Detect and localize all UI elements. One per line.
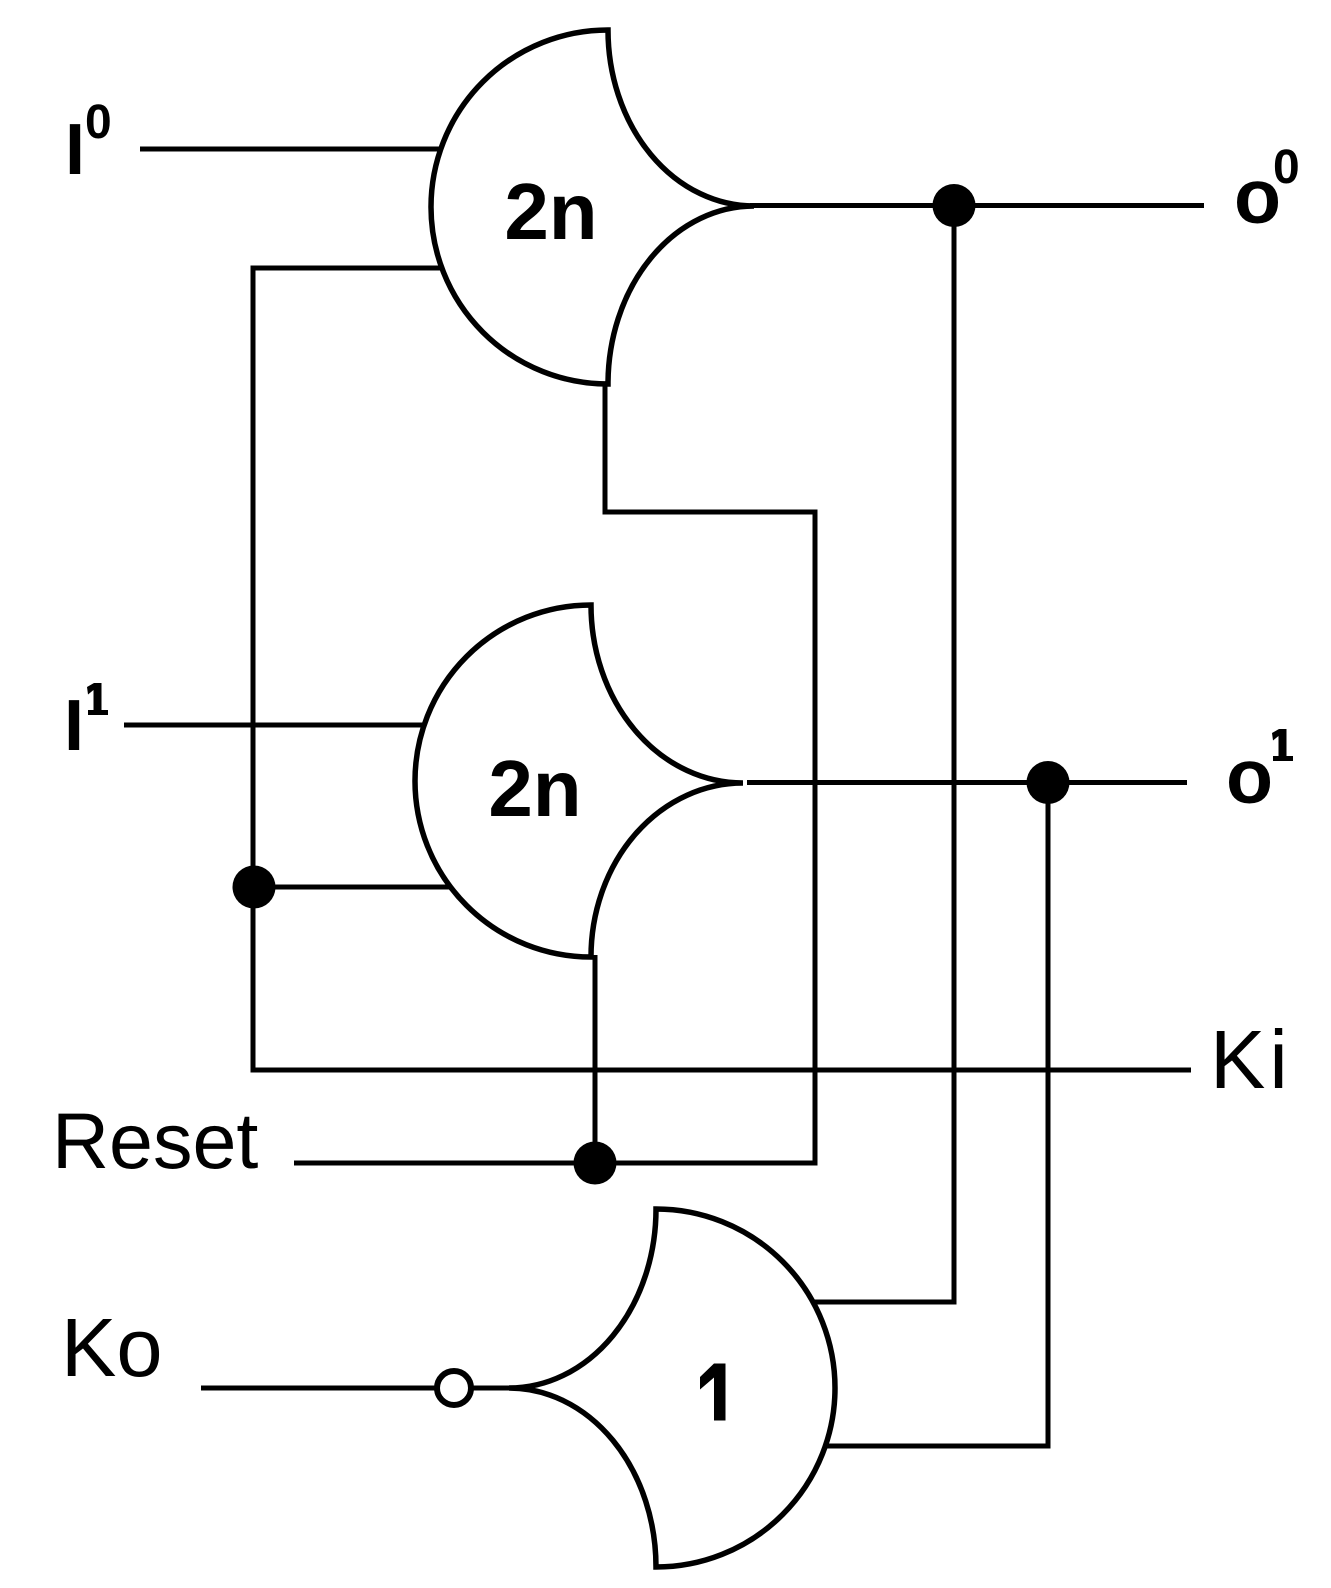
svg-text:0: 0 — [85, 96, 112, 149]
svg-text:I: I — [65, 110, 85, 190]
svg-text:Ko: Ko — [61, 1301, 163, 1394]
svg-text:2n: 2n — [488, 744, 581, 833]
svg-text:o: o — [1226, 734, 1273, 820]
svg-text:Reset: Reset — [52, 1096, 258, 1185]
svg-text:Ki: Ki — [1210, 1013, 1292, 1106]
svg-text:0: 0 — [1273, 141, 1300, 194]
svg-text:I: I — [64, 686, 84, 766]
svg-text:2n: 2n — [504, 167, 597, 256]
